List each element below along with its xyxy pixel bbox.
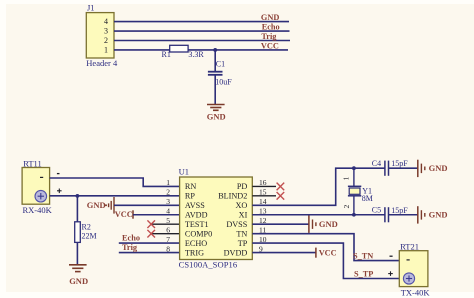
wire Trig from J1 pin2 [114, 40, 290, 42]
svg-text:RN: RN [185, 182, 196, 191]
minus terminal mark [57, 173, 60, 175]
wire C4 to ground [389, 167, 418, 169]
svg-text:5: 5 [166, 216, 170, 225]
svg-text:6: 6 [166, 225, 170, 234]
wire R2 to ground [76, 242, 78, 264]
svg-text:Trig: Trig [122, 243, 138, 252]
svg-text:2: 2 [342, 204, 351, 208]
svg-text:Header 4: Header 4 [86, 58, 118, 68]
svg-text:TX-40K: TX-40K [401, 287, 431, 297]
svg-text:C4: C4 [372, 159, 381, 168]
svg-text:GND: GND [429, 163, 448, 173]
wire GND from J1 pin4 [114, 21, 289, 23]
svg-text:VCC: VCC [115, 210, 133, 219]
svg-text:10uF: 10uF [215, 78, 232, 87]
svg-text:VCC: VCC [261, 41, 279, 50]
wire TP pin10 to RT21 plus [252, 243, 399, 278]
wire C1 to ground [214, 75, 216, 105]
ground (earth) below R2 [69, 264, 87, 266]
wire Echo from J1 pin3 [114, 30, 290, 32]
pin6 stub with no-connect X [152, 233, 180, 235]
svg-text:15pF: 15pF [391, 159, 408, 168]
resistor R1 [170, 45, 188, 52]
wire Trig to pin8 [119, 252, 180, 254]
svg-text:VCC: VCC [319, 248, 337, 257]
svg-text:COMP0: COMP0 [185, 229, 212, 238]
svg-text:DVSS: DVSS [226, 220, 247, 229]
wire TN pin11 to RT21 minus [252, 234, 399, 261]
svg-text:4: 4 [166, 207, 170, 216]
svg-text:3: 3 [166, 197, 170, 206]
plus mark [388, 273, 393, 275]
svg-text:RX-40K: RX-40K [23, 205, 53, 215]
svg-text:1: 1 [166, 178, 170, 187]
svg-text:XI: XI [239, 211, 248, 220]
junction on VCC wire [213, 48, 217, 52]
svg-text:U1: U1 [179, 167, 189, 177]
ground (earth) below C1 [207, 104, 225, 106]
svg-text:8M: 8M [362, 194, 373, 203]
svg-text:AVSS: AVSS [185, 201, 205, 210]
svg-text:XO: XO [235, 201, 247, 210]
svg-text:GND: GND [261, 13, 279, 22]
junction on XI wire [352, 213, 356, 217]
svg-text:TRIG: TRIG [185, 248, 204, 257]
svg-text:RP: RP [185, 192, 195, 201]
svg-text:AVDD: AVDD [185, 211, 208, 220]
svg-text:1: 1 [342, 176, 351, 180]
wire RT11 plus to U1 pin2 [50, 195, 180, 197]
power ground right of C5 [417, 206, 419, 223]
svg-text:GND: GND [319, 219, 338, 229]
svg-text:3: 3 [104, 27, 108, 36]
wire pin9 to VCC [252, 252, 316, 254]
svg-text:R1: R1 [162, 50, 171, 59]
svg-text:PD: PD [237, 182, 248, 191]
svg-text:ECHO: ECHO [185, 239, 207, 248]
svg-text:15pF: 15pF [391, 206, 408, 215]
wire C5 to ground [389, 214, 418, 216]
svg-text:BLIND2: BLIND2 [218, 192, 247, 201]
svg-text:4: 4 [104, 17, 108, 26]
svg-text:7: 7 [166, 235, 170, 244]
wire to R2 [76, 196, 78, 222]
power ground right of C4 [417, 160, 419, 177]
svg-text:2: 2 [166, 188, 170, 197]
wire RT11 minus to U1 pin1 [50, 178, 180, 186]
svg-text:S_TN: S_TN [353, 251, 373, 260]
plus terminal mark [57, 190, 62, 192]
wire to C1 [214, 50, 216, 72]
svg-text:TEST1: TEST1 [185, 220, 209, 229]
crystal Y1 [353, 168, 355, 186]
svg-text:GND: GND [207, 111, 226, 121]
svg-text:S_TP: S_TP [354, 270, 373, 279]
svg-text:GND: GND [69, 276, 88, 286]
pin15 stub with no-connect X [252, 195, 276, 197]
wire pin12 to ground [252, 223, 309, 225]
svg-text:3.3R: 3.3R [188, 50, 204, 59]
junction on plus wire [76, 194, 80, 198]
junction on rail [352, 166, 356, 170]
svg-text:RT21: RT21 [400, 241, 419, 251]
svg-text:8: 8 [166, 244, 170, 253]
svg-text:TN: TN [236, 229, 247, 238]
wire ground to pin3 [114, 204, 180, 206]
resistor R2 [75, 222, 81, 243]
minus mark [390, 255, 393, 257]
svg-text:GND: GND [429, 209, 448, 219]
pin16 stub with no-connect X [252, 185, 276, 187]
svg-text:CS100A_SOP16: CS100A_SOP16 [179, 260, 238, 270]
svg-text:C5: C5 [372, 205, 381, 214]
wire VCC to pin4 [133, 214, 180, 216]
svg-text:TP: TP [238, 239, 248, 248]
svg-text:22M: 22M [82, 232, 97, 241]
svg-text:C1: C1 [216, 60, 225, 69]
svg-text:Trig: Trig [261, 32, 277, 41]
svg-text:2: 2 [104, 36, 108, 45]
power VCC at pin9 [315, 248, 317, 258]
svg-text:1: 1 [104, 46, 108, 55]
capacitor C5 [384, 207, 386, 222]
svg-text:J1: J1 [87, 3, 95, 13]
wire XO pin14 up to crystal rail [252, 168, 385, 205]
capacitor C1 [208, 71, 223, 73]
wire Echo to pin7 [119, 242, 180, 244]
pin5 stub with no-connect X [152, 223, 180, 225]
capacitor C4 [384, 161, 386, 176]
svg-text:Echo: Echo [122, 234, 140, 243]
power ground at pin12 [308, 216, 310, 233]
svg-text:Echo: Echo [262, 23, 280, 32]
svg-text:DVDD: DVDD [224, 248, 248, 257]
wire XI pin13 [252, 214, 385, 216]
svg-text:R2: R2 [82, 223, 91, 232]
svg-text:GND: GND [87, 200, 106, 210]
wire VCC from J1 pin1 [114, 49, 288, 51]
